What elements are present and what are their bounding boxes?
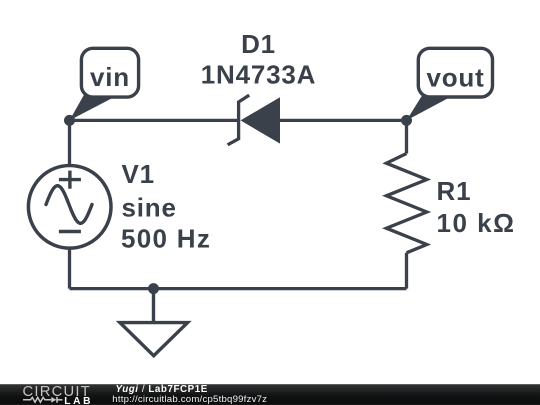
voltage source V1 minus sign (59, 230, 81, 233)
wire R1 bottom to bottom rail (405, 253, 408, 289)
svg-text:10 kΩ: 10 kΩ (437, 208, 516, 238)
wire V1 bottom down to bottom rail (68, 248, 71, 289)
voltage source V1 sine wave (46, 186, 92, 224)
wire bottom rail (70, 287, 407, 290)
node vout dot (401, 115, 412, 126)
ground stem (152, 289, 155, 323)
zener diode D1 triangle (241, 97, 281, 143)
ground triangle (120, 323, 188, 356)
svg-text:vout: vout (426, 63, 484, 93)
net flag vout pointer (407, 94, 457, 120)
net flag vout box (418, 48, 492, 97)
node vin dot (64, 115, 75, 126)
svg-text:vin: vin (90, 62, 130, 92)
resistor R1 zigzag (386, 154, 426, 253)
svg-text:LAB: LAB (64, 396, 93, 405)
net flag vin box (81, 48, 138, 97)
svg-text:sine: sine (122, 193, 177, 223)
wire vout node down to R1 top (405, 120, 408, 153)
footer logo wire-resistor-diode doodle (23, 397, 63, 402)
svg-text:Yugi / Lab7FCP1E: Yugi / Lab7FCP1E (116, 384, 208, 395)
zener diode D1 bar (228, 95, 250, 145)
footer logo diode symbol (51, 397, 56, 403)
svg-text:500 Hz: 500 Hz (121, 224, 211, 254)
voltage source V1 circle (28, 166, 111, 249)
net flag vin pointer (70, 93, 123, 120)
wire top from vin node to D1 (70, 119, 240, 122)
svg-text:http://circuitlab.com/cp5tbq99: http://circuitlab.com/cp5tbq99fzv7z (112, 394, 267, 405)
voltage source V1 plus sign (59, 171, 81, 189)
wire top from D1 to vout node (280, 119, 407, 122)
junction dot ground node (148, 283, 159, 294)
svg-text:V1: V1 (122, 159, 155, 189)
svg-text:D1: D1 (241, 29, 276, 59)
svg-text:R1: R1 (437, 176, 472, 206)
svg-text:1N4733A: 1N4733A (201, 59, 316, 89)
wire vin node down to V1 top (68, 120, 71, 166)
